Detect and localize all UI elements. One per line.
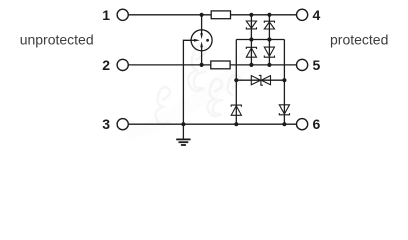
diode D5 bottom left up-pointing: [231, 105, 241, 115]
wire mid rail: [236, 39, 284, 41]
wire line1 left segment: [128, 14, 211, 16]
terminal 1 circle: [117, 9, 128, 20]
terminal 6 circle: [297, 119, 308, 130]
TVS bidirectional suppressor: [251, 75, 270, 85]
node line1-colB: [267, 13, 271, 17]
terminal 2 circle: [117, 59, 128, 70]
resistor R top: [211, 11, 230, 19]
diode D1 row1 colA down-pointing: [246, 21, 256, 29]
diode D3 row2 colA up-pointing: [246, 47, 256, 57]
diode D6 bottom right down-pointing: [279, 105, 289, 115]
wire column A upper: [250, 15, 252, 65]
wire outer column right: [283, 40, 285, 125]
terminal 4 circle: [297, 9, 308, 20]
svg-text:4: 4: [313, 7, 321, 23]
svg-text:2: 2: [102, 57, 110, 73]
svg-text:1: 1: [102, 7, 110, 23]
wire line2 left segment: [128, 64, 210, 66]
wire TVS rail: [236, 79, 284, 81]
wire GDT top lead: [201, 15, 203, 30]
svg-text:5: 5: [313, 57, 321, 73]
svg-text:6: 6: [313, 116, 321, 132]
wire column B upper: [268, 15, 270, 65]
diode D4 row2 colB down-pointing: [264, 47, 274, 57]
node line1-GDT: [200, 13, 204, 17]
node midrail-colB: [267, 37, 271, 41]
wire GDT bottom lead: [201, 51, 203, 65]
node line2-colB: [267, 63, 271, 67]
gas discharge tube arrows and dot: [194, 33, 209, 47]
watermark script glyphs: [155, 45, 240, 124]
watermark swoosh band: [125, 20, 285, 140]
svg-text:unprotected: unprotected: [20, 31, 94, 47]
node line2-colA: [249, 63, 253, 67]
node line2-GDT: [200, 63, 204, 67]
junction dots: [181, 13, 286, 127]
node line3-left: [234, 122, 238, 126]
terminal 5 circle: [297, 59, 308, 70]
svg-text:3: 3: [102, 116, 110, 132]
node line1-colA: [249, 13, 253, 17]
wire line1 right segment: [231, 14, 297, 16]
diode D2 row1 colB up-pointing: [264, 21, 274, 29]
wire GDT ground electrode: [183, 40, 191, 124]
gas discharge tube circle: [191, 30, 212, 51]
wire line3: [128, 123, 296, 125]
wire outer column left: [235, 40, 237, 125]
node midrail-colA: [249, 37, 253, 41]
ground symbol: [176, 124, 190, 145]
node line3-right: [282, 122, 286, 126]
node tvsrail-left: [234, 78, 238, 82]
resistor R middle: [211, 61, 230, 69]
node line3-ground: [181, 122, 185, 126]
terminal 3 circle: [117, 119, 128, 130]
wire line2 right segment: [230, 64, 296, 66]
node tvsrail-right: [282, 78, 286, 82]
svg-text:protected: protected: [330, 31, 388, 47]
